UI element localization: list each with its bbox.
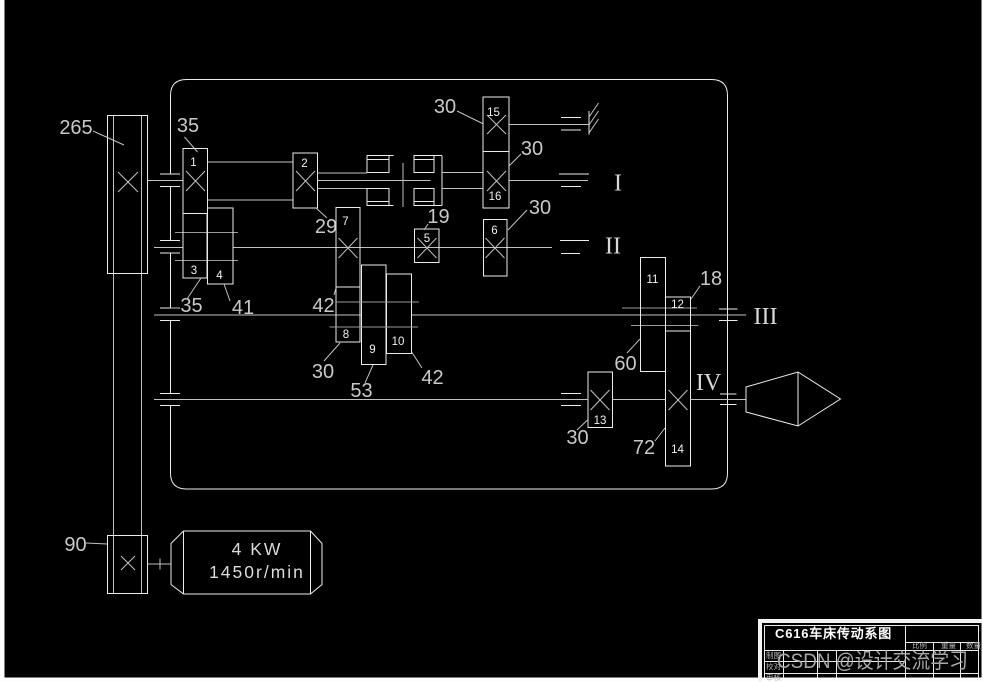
gear 13: [588, 372, 613, 428]
leader 30 gear6: [508, 210, 527, 230]
shaft IV: [154, 399, 746, 401]
svg-text:30: 30: [566, 427, 588, 449]
svg-text:1450r/min: 1450r/min: [209, 562, 305, 582]
shaft I clutch section lines: [318, 173, 431, 189]
svg-text:30: 30: [529, 197, 551, 219]
svg-text:29: 29: [315, 216, 337, 238]
svg-text:42: 42: [421, 367, 443, 389]
svg-text:13: 13: [594, 415, 607, 427]
gear 1: [183, 149, 208, 214]
shaft III spline lines: [330, 302, 420, 327]
svg-text:90: 90: [64, 534, 86, 556]
shaft II spline lines: [175, 233, 238, 261]
gear 7: [336, 208, 360, 288]
gear 2: [293, 153, 318, 208]
svg-text:16: 16: [489, 191, 502, 203]
svg-text:72: 72: [633, 437, 655, 459]
page left margin strip: [0, 0, 5, 682]
fixed wall with hatching: [588, 111, 590, 135]
belt: [114, 115, 142, 594]
svg-text:7: 7: [342, 216, 348, 228]
leader 60: [627, 339, 640, 353]
gear 9: [362, 265, 387, 365]
svg-text:41: 41: [232, 297, 254, 319]
clutch right half: [414, 156, 434, 173]
svg-text:14: 14: [671, 444, 684, 456]
svg-text:数量: 数量: [966, 640, 981, 650]
svg-text:19: 19: [427, 206, 449, 228]
bearing shaft I right: [559, 174, 589, 187]
svg-text:4 KW: 4 KW: [232, 539, 283, 559]
svg-text:IV: IV: [696, 370, 722, 396]
svg-text:265: 265: [59, 117, 92, 139]
pulley 90 cross: [121, 556, 135, 570]
leader 30 mid: [509, 154, 521, 166]
motor body: [171, 531, 322, 594]
leader 53: [365, 365, 373, 383]
gear 10: [387, 274, 412, 354]
gear 5: [415, 229, 440, 263]
svg-text:30: 30: [521, 138, 543, 160]
title block thick border: [758, 619, 983, 623]
leader 265: [93, 131, 124, 145]
pulley 90: [108, 536, 148, 594]
shaft I sleeve gear1 to gear2: [208, 162, 294, 200]
gear 14: [666, 331, 691, 466]
svg-text:重量: 重量: [941, 641, 956, 650]
leader 41: [224, 284, 230, 301]
svg-text:C616车床传动系图: C616车床传动系图: [775, 626, 892, 641]
svg-text:9: 9: [369, 344, 375, 356]
svg-text:比例: 比例: [912, 640, 927, 650]
svg-text:CSDN @设计交流学习: CSDN @设计交流学习: [777, 650, 968, 673]
svg-text:3: 3: [191, 265, 197, 277]
leader 29: [316, 208, 327, 218]
svg-text:III: III: [754, 304, 778, 330]
page right margin strip: [982, 0, 983, 682]
svg-text:53: 53: [350, 380, 372, 402]
svg-text:30: 30: [312, 361, 334, 383]
bearing shaft IV mid: [561, 394, 581, 406]
gear 8: [336, 287, 360, 342]
shaft III: [154, 314, 746, 316]
bearing shaft IV right: [720, 394, 737, 405]
svg-text:4: 4: [216, 270, 223, 282]
svg-text:12: 12: [671, 299, 684, 311]
svg-text:35: 35: [177, 115, 199, 137]
bearing shaft II left: [160, 241, 180, 254]
svg-text:10: 10: [392, 336, 405, 348]
pulley 265 cross: [118, 172, 138, 192]
bearing shaft I left: [160, 174, 180, 187]
clutch left half: [367, 156, 389, 173]
leader 90: [86, 543, 107, 544]
svg-text:5: 5: [424, 233, 430, 245]
svg-text:审核: 审核: [766, 672, 781, 682]
gear block 15 16: [483, 97, 509, 208]
leader 35 lower: [187, 278, 201, 299]
svg-text:35: 35: [180, 295, 202, 317]
svg-text:8: 8: [343, 329, 349, 341]
bearing gear15 shaft: [561, 118, 581, 131]
clutch fork line: [402, 163, 404, 207]
gear 4: [208, 208, 234, 284]
leader 18: [691, 286, 700, 299]
shaft II: [154, 247, 552, 249]
gear 6: [484, 220, 508, 277]
tick 35 lower: [171, 307, 179, 309]
leader 30 top: [457, 111, 483, 124]
shaft I right end: [509, 180, 588, 182]
leader 42 right: [412, 353, 422, 369]
svg-text:42: 42: [312, 295, 334, 317]
leader 19: [424, 224, 428, 230]
housing left wall segments: [170, 187, 172, 394]
pulley 265: [108, 116, 148, 274]
svg-text:6: 6: [491, 225, 497, 237]
gearbox housing: [171, 80, 728, 490]
bearing shaft II right: [560, 241, 589, 254]
svg-text:I: I: [614, 171, 622, 197]
gear 12: [666, 297, 691, 331]
svg-text:1: 1: [190, 157, 196, 169]
leader 72: [655, 428, 665, 441]
svg-text:11: 11: [647, 274, 659, 286]
bearing shaft III right: [719, 309, 738, 321]
title block table: [765, 626, 979, 678]
svg-text:18: 18: [700, 268, 722, 290]
spindle cone: [746, 372, 841, 426]
svg-text:30: 30: [434, 96, 456, 118]
gear 11: [641, 258, 666, 372]
leader 30 gear8: [324, 343, 340, 361]
motor link: [148, 559, 172, 570]
shaft I stub pulley to gear1: [148, 180, 184, 182]
svg-text:60: 60: [614, 353, 636, 375]
svg-text:II: II: [605, 234, 621, 260]
gear 3: [183, 214, 207, 279]
shaft of gear15: [509, 124, 589, 126]
leader 30 gear13: [577, 420, 588, 430]
shaft III hub lines at gear11: [622, 308, 699, 326]
leader 35 upper: [185, 137, 198, 152]
svg-text:2: 2: [301, 158, 307, 170]
leader 42 left: [334, 288, 336, 295]
shaft I clutch to gear16: [442, 173, 483, 189]
bearing shaft III left: [160, 308, 180, 321]
bearing shaft IV left: [160, 394, 180, 406]
page bottom margin strip: [0, 678, 983, 682]
